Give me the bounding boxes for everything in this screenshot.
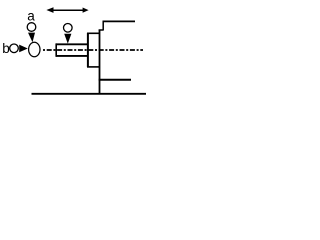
housing step horizontal <box>99 29 104 31</box>
housing inner top line <box>87 32 100 34</box>
dial indicator b body <box>10 44 19 53</box>
centerline <box>43 49 143 51</box>
arrowhead left <box>46 7 53 13</box>
axial movement double arrow line <box>53 9 83 11</box>
dial indicator b probe <box>19 45 28 53</box>
shaft end view circle <box>29 42 40 56</box>
shaft right face / flange <box>87 33 89 67</box>
shaft left end <box>55 43 57 56</box>
housing inner bottom line <box>87 66 100 68</box>
dial indicator c body <box>64 24 73 33</box>
svg-text:b: b <box>2 41 10 56</box>
svg-text:a: a <box>27 9 35 24</box>
housing bottom edge <box>99 79 131 81</box>
dial indicator c probe <box>64 34 71 44</box>
base line <box>32 93 147 95</box>
dial indicator a probe <box>28 33 35 43</box>
dial indicator a body <box>27 23 36 32</box>
arrowhead right <box>83 8 89 13</box>
housing top edge <box>103 20 136 22</box>
shaft bottom edge <box>56 55 88 57</box>
shaft top edge <box>56 43 88 45</box>
housing step vertical <box>102 22 104 31</box>
housing left face <box>99 30 101 94</box>
